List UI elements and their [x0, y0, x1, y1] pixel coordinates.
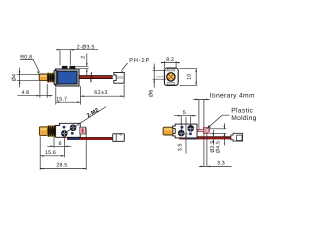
- connector PH-2P (side view): [114, 72, 124, 83]
- svg-text:Ø4: Ø4: [11, 74, 17, 81]
- dimension Φ4 (plunger dia): [11, 68, 39, 88]
- dimension 10: [180, 69, 198, 86]
- hole (big, bottom-left): [178, 130, 184, 136]
- dimension 8.2: [161, 57, 180, 68]
- dimension 15.7: [56, 86, 81, 104]
- svg-text:2: 2: [81, 56, 87, 59]
- return spring (side view): [47, 72, 55, 82]
- end view housing: [164, 68, 178, 85]
- dimension itinerary (stroke): [193, 99, 209, 167]
- small hole top-left: [181, 126, 184, 129]
- small hole bottom-right: [189, 132, 192, 135]
- wire (top view lead): [67, 137, 114, 140]
- leader R0.8: [20, 59, 40, 74]
- terminal slot top: [167, 69, 175, 71]
- svg-text:Ø4.5: Ø4.5: [216, 141, 222, 153]
- plunger (bottom view): [163, 127, 173, 135]
- svg-text:Molding: Molding: [231, 115, 257, 122]
- leader Plastic Molding: [208, 115, 230, 128]
- svg-text:Plastic: Plastic: [231, 107, 253, 114]
- plastic molding (pink): [198, 127, 210, 133]
- svg-text:62±3: 62±3: [94, 90, 108, 96]
- wire exit boot (pink): [80, 127, 86, 134]
- dimension 6 (top view): [47, 137, 71, 158]
- label Plastic Molding: [231, 107, 257, 121]
- dimension Φ6: [149, 64, 167, 97]
- plunger (top view): [39, 127, 47, 136]
- leader PH-2P: [120, 63, 127, 73]
- dimension 15.6: [40, 136, 64, 170]
- svg-text:8.2: 8.2: [166, 57, 174, 63]
- leader 2-M2: [65, 107, 107, 134]
- M2 hole 1 (big, bottom-left): [62, 131, 68, 137]
- plunger (side view): [39, 74, 47, 81]
- svg-text:Ø6: Ø6: [149, 90, 155, 97]
- front flange: [54, 70, 57, 84]
- svg-text:3.3: 3.3: [217, 160, 225, 166]
- svg-text:PH-2P: PH-2P: [129, 58, 150, 64]
- body (top view): [56, 123, 81, 137]
- coil (blue core): [58, 71, 77, 84]
- centerline (end view): [156, 76, 166, 78]
- svg-text:28.5: 28.5: [56, 162, 67, 168]
- dimension 62±3: [80, 84, 124, 98]
- dimension Φ4.5 (molding): [209, 123, 227, 153]
- connector (top view): [113, 134, 125, 142]
- dimension 2 (terminal height): [76, 54, 89, 75]
- wire (bottom view lead): [179, 136, 231, 139]
- terminal pin 1: [62, 66, 68, 69]
- svg-text:3.5: 3.5: [177, 143, 183, 151]
- svg-text:5: 5: [183, 110, 186, 116]
- svg-text:15.7: 15.7: [56, 96, 67, 102]
- plunger end (orange, Φ6): [166, 72, 176, 82]
- small hole top-left: [63, 126, 66, 129]
- wire break mark: [91, 72, 92, 82]
- small hole bottom-right: [71, 132, 74, 135]
- return spring (top view): [47, 125, 55, 137]
- dimension 3.5: [177, 117, 188, 153]
- dimension 3.3: [199, 134, 232, 168]
- dimension Φ2.5 (wire): [210, 130, 216, 153]
- dimension 4.8: [17, 81, 52, 98]
- wire (side view red lead): [79, 75, 113, 79]
- svg-text:4.8: 4.8: [21, 90, 29, 96]
- svg-text:Itinerary 4mm: Itinerary 4mm: [210, 92, 255, 99]
- M2 hole 2 (big, top-right): [70, 125, 76, 131]
- body (bottom view): [173, 124, 197, 138]
- dimension 5 (hole pitch): [174, 110, 196, 133]
- terminal slot bottom: [167, 83, 175, 85]
- dimension 28.5: [40, 128, 86, 170]
- hole (big, top-right): [188, 126, 194, 132]
- dimension 2-Φ3.5: [57, 45, 98, 65]
- terminal pin 2: [69, 66, 75, 69]
- connector (bottom view): [231, 133, 243, 141]
- svg-text:15.6: 15.6: [45, 150, 56, 156]
- solenoid body frame (side view): [55, 69, 79, 86]
- svg-text:10: 10: [187, 74, 193, 80]
